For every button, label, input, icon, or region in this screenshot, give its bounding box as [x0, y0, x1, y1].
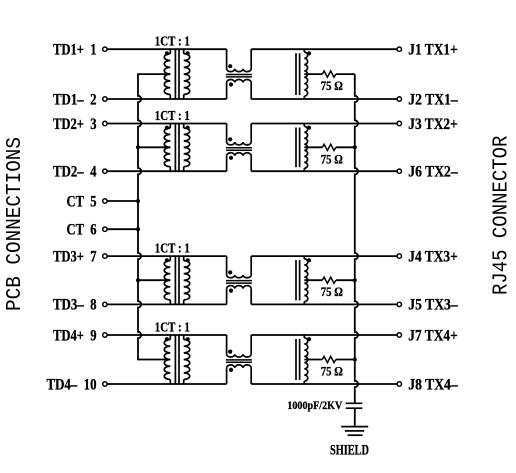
junction: CT5 on rail: [136, 199, 140, 203]
wire: row bottom channel 1 right segment: [251, 98, 397, 100]
choke CM3 top polarity dot: [228, 270, 232, 274]
svg-text:RJ45 CONNECTOR: RJ45 CONNECTOR: [490, 135, 513, 295]
svg-text:J8 TX4–: J8 TX4–: [408, 376, 458, 393]
junction: R2 on shield rail: [353, 145, 357, 149]
svg-text:TD4+ 9: TD4+ 9: [53, 327, 97, 344]
choke CM1 top winding: [226, 49, 228, 69]
svg-text:PCB CONNECTIONS: PCB CONNECTIONS: [4, 137, 27, 311]
wire: row bottom channel 2 right segment: [251, 170, 397, 172]
autotransformer A3 polarity dot: [307, 258, 311, 262]
wire: primary center tap channel 1: [137, 73, 170, 75]
transformer T1 primary winding: [164, 54, 170, 95]
svg-text:CT 5: CT 5: [67, 193, 97, 210]
autotransformer A1 winding: [304, 52, 307, 96]
svg-text:1CT : 1: 1CT : 1: [155, 35, 190, 50]
wire: primary center tap channel 4: [137, 359, 170, 361]
choke CM2 bottom polarity dot: [229, 156, 233, 160]
wire: tap to resistor R1: [304, 73, 322, 75]
choke CM4 bottom winding: [226, 368, 228, 384]
transformer T2 secondary winding: [184, 128, 190, 167]
wire: tap to resistor R4: [304, 359, 322, 361]
svg-text:1CT : 1: 1CT : 1: [155, 321, 190, 336]
choke CM4 core: [226, 359, 252, 361]
terminal pin 5: [103, 199, 107, 203]
transformer T1 core: [174, 50, 176, 99]
svg-text:TD1+ 1: TD1+ 1: [53, 42, 97, 59]
choke CM2 core: [226, 147, 252, 149]
svg-text:75 Ω: 75 Ω: [321, 365, 343, 379]
wire: resistor R4 to shield rail: [336, 359, 355, 361]
svg-text:75 Ω: 75 Ω: [321, 152, 343, 166]
svg-text:J4 TX3+: J4 TX3+: [408, 248, 457, 265]
terminal J3: [397, 121, 401, 125]
terminal pin 3: [103, 121, 107, 125]
terminal J8: [397, 382, 401, 386]
choke CM1 core: [226, 74, 252, 76]
autotransformer A3 core: [295, 260, 297, 300]
svg-text:75 Ω: 75 Ω: [321, 285, 343, 299]
transformer T3 core: [174, 257, 176, 305]
svg-text:TD4– 10: TD4– 10: [47, 376, 97, 393]
wire: row bottom channel 1 left segment: [107, 98, 227, 100]
junction: CT6 on rail: [136, 227, 140, 231]
svg-text:TD2+ 3: TD2+ 3: [53, 116, 97, 133]
wire: row top channel 3 left segment: [107, 255, 227, 257]
svg-text:J6 TX2–: J6 TX2–: [408, 164, 458, 181]
svg-text:1CT : 1: 1CT : 1: [155, 109, 190, 124]
junction: T2 tap on rail: [136, 145, 140, 149]
svg-text:J3 TX2+: J3 TX2+: [408, 116, 457, 133]
junction: R3 on shield rail: [353, 278, 357, 282]
wire: primary center tap channel 3: [137, 279, 170, 281]
transformer T3 secondary polarity dot: [186, 258, 190, 262]
transformer T3 secondary winding: [184, 261, 190, 300]
svg-text:TD3– 8: TD3– 8: [53, 297, 97, 314]
capacitor C1 1000pF/2KV plates: [346, 402, 363, 404]
wire: center-tap rail (vertical, with hops): [138, 74, 141, 359]
svg-text:TD2– 4: TD2– 4: [53, 164, 97, 181]
transformer T4 secondary winding: [184, 340, 190, 380]
resistor R4 zigzag: [322, 356, 336, 362]
wire: tap to resistor R3: [304, 279, 322, 281]
terminal J2: [397, 97, 401, 101]
terminal J7: [397, 333, 401, 337]
wire: row top channel 1 left segment: [107, 48, 227, 50]
wire: row top channel 3 right segment: [251, 255, 397, 257]
wire: capacitor to ground: [354, 408, 356, 426]
choke CM4 top polarity dot: [228, 350, 232, 354]
choke CM1 bottom winding: [226, 83, 228, 100]
transformer T1 secondary winding: [184, 54, 190, 95]
transformer T4 core: [174, 335, 176, 383]
autotransformer A2 polarity dot: [307, 126, 311, 130]
wire: row top channel 2 left segment: [107, 123, 227, 125]
svg-text:1CT : 1: 1CT : 1: [155, 242, 190, 257]
svg-text:SHIELD: SHIELD: [330, 443, 369, 459]
wire: row bottom channel 2 left segment: [107, 170, 227, 172]
autotransformer A4 winding: [304, 338, 308, 381]
transformer T4 secondary polarity dot: [186, 337, 190, 341]
terminal pin 8: [103, 302, 107, 306]
transformer T3 primary polarity dot: [165, 258, 169, 262]
terminal pin 9: [103, 333, 107, 337]
terminal pin 10: [103, 382, 107, 386]
wire: row bottom channel 3 left segment: [107, 303, 227, 305]
terminal J1: [397, 47, 401, 51]
terminal pin 7: [103, 254, 107, 258]
transformer T2 primary winding: [164, 128, 170, 167]
wire: resistor R3 to shield rail: [336, 279, 355, 281]
transformer T2 primary polarity dot: [165, 126, 169, 130]
autotransformer A2 winding: [304, 126, 307, 168]
transformer T1 secondary polarity dot: [186, 51, 190, 55]
autotransformer A4 polarity dot: [307, 337, 311, 341]
terminal pin 1: [103, 47, 107, 51]
transformer T1 primary polarity dot: [165, 51, 169, 55]
choke CM2 bottom winding: [226, 156, 228, 171]
transformer T4 primary winding: [164, 340, 170, 380]
resistor R2 zigzag: [322, 144, 336, 150]
choke CM2 top polarity dot: [228, 137, 232, 141]
svg-text:CT 6: CT 6: [67, 222, 97, 239]
wire: row bottom channel 4 right segment: [251, 383, 397, 385]
transformer T2 core: [174, 124, 176, 171]
transformer T2 secondary polarity dot: [186, 126, 190, 130]
choke CM3 bottom polarity dot: [229, 289, 233, 293]
wire: tap to resistor R2: [304, 146, 322, 148]
choke CM4 top winding: [226, 335, 228, 354]
choke CM1 top polarity dot: [228, 64, 232, 68]
wire: row bottom channel 3 right segment: [251, 303, 397, 305]
svg-text:J5 TX3–: J5 TX3–: [408, 297, 458, 314]
choke CM1 bottom polarity dot: [229, 82, 233, 86]
wire: CT pin 5 stub: [107, 200, 138, 202]
wire: resistor R2 to shield rail: [336, 146, 355, 148]
autotransformer A1 core: [295, 53, 297, 95]
terminal pin 4: [103, 169, 107, 173]
choke CM2 top winding: [226, 124, 228, 143]
autotransformer A2 core: [295, 128, 297, 168]
choke CM4 bottom polarity dot: [229, 368, 233, 372]
choke CM3 top winding: [226, 256, 228, 275]
choke CM3 core: [226, 280, 252, 282]
ground (shield) symbol: [341, 426, 368, 428]
svg-text:J7 TX4+: J7 TX4+: [408, 327, 457, 344]
wire: resistor R1 to shield rail: [336, 73, 355, 75]
autotransformer A1 polarity dot: [307, 51, 311, 55]
svg-text:J1 TX1+: J1 TX1+: [408, 42, 457, 59]
svg-text:75 Ω: 75 Ω: [321, 79, 343, 93]
svg-text:TD1– 2: TD1– 2: [53, 91, 97, 108]
wire: primary center tap channel 2: [137, 146, 170, 148]
choke CM3 bottom winding: [226, 289, 228, 305]
svg-text:J2 TX1–: J2 TX1–: [408, 91, 458, 108]
resistor R3 zigzag: [322, 277, 336, 283]
terminal pin 2: [103, 97, 107, 101]
wire: CT pin 6 stub: [107, 228, 138, 230]
svg-text:TD3+ 7: TD3+ 7: [53, 248, 97, 265]
terminal pin 6: [103, 227, 107, 231]
autotransformer A3 winding: [304, 259, 307, 302]
resistor R1 zigzag: [322, 71, 336, 77]
wire: row top channel 2 right segment: [251, 123, 397, 125]
wire: row top channel 4 left segment: [107, 334, 227, 336]
wire: row top channel 4 right segment: [251, 334, 397, 336]
svg-text:1000pF/2KV: 1000pF/2KV: [287, 398, 342, 412]
transformer T3 primary winding: [164, 261, 170, 300]
junction: T3 tap on rail: [136, 278, 140, 282]
junction: R4 on shield rail: [353, 358, 357, 362]
transformer T4 primary polarity dot: [165, 337, 169, 341]
terminal J4: [397, 254, 401, 258]
autotransformer A4 core: [295, 339, 297, 380]
wire: row top channel 1 right segment: [251, 48, 397, 50]
wire: shield rail (vertical, with hops): [355, 74, 358, 403]
terminal J5: [397, 302, 401, 306]
terminal J6: [397, 169, 401, 173]
wire: row bottom channel 4 left segment: [107, 383, 227, 385]
